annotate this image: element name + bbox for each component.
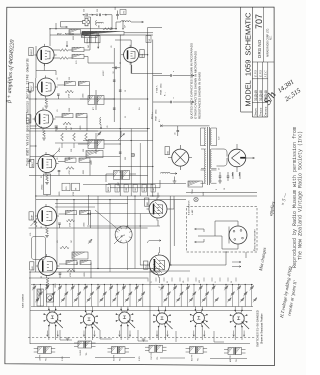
svg-text:05: 05 xyxy=(41,176,43,178)
terminal arrows below wafers xyxy=(46,331,48,337)
ground bottom2 xyxy=(142,338,146,340)
wire loop V7 xyxy=(32,237,46,260)
svg-text:470Ω: 470Ω xyxy=(58,147,61,152)
svg-text:.01: .01 xyxy=(57,241,59,244)
wire coil taps xyxy=(108,349,130,353)
wire coil taps xyxy=(145,347,167,351)
capacitor tone 250b xyxy=(116,14,119,16)
wire V6 6SA7 plate load xyxy=(59,213,66,215)
svg-text:YEL: YEL xyxy=(198,358,200,361)
resistor ladder V5 6SK7 xyxy=(65,158,76,162)
wire v x174 xyxy=(173,200,175,246)
svg-text:YEL: YEL xyxy=(120,358,122,361)
wire V6 6SA7 row xyxy=(29,227,148,229)
svg-text:.05: .05 xyxy=(107,126,109,129)
resistor ladder V3 6SQ7 xyxy=(64,82,75,86)
capacitor chain top xyxy=(83,14,84,15)
speaker LS1 xyxy=(83,18,90,25)
wire y271 xyxy=(150,270,190,272)
svg-text:8: 8 xyxy=(216,189,218,190)
wire bus risers xyxy=(50,20,123,46)
svg-text:YEL: YEL xyxy=(46,358,48,361)
arrow drop x67 xyxy=(66,41,68,47)
antenna arrow 2 xyxy=(153,101,170,103)
wire vertical bus x153 xyxy=(152,40,154,197)
capacitor V7 6J8G bypass xyxy=(59,272,62,274)
wire V3 6SQ7 row xyxy=(28,98,147,100)
resistor V5 cathode box xyxy=(44,174,51,195)
svg-text:K↓: K↓ xyxy=(158,119,161,122)
capacitor V4 6SK7 bypass xyxy=(55,125,58,127)
wire top chain xyxy=(83,15,113,22)
coil 855&#160;PRI xyxy=(112,347,118,354)
svg-text:F6 A→: F6 A→ xyxy=(151,112,154,120)
wire V7 6J8G plate load xyxy=(59,263,66,265)
wire V5 6SK7 row xyxy=(29,175,148,177)
wire ps bottom run xyxy=(150,180,160,196)
svg-text:6J8: 6J8 xyxy=(32,266,34,269)
wire S7 feeds xyxy=(88,195,140,270)
wire wafer risers xyxy=(49,307,56,341)
wire bottom loops xyxy=(60,330,224,342)
wire V4 6SK7 plate load xyxy=(55,116,62,118)
svg-text:KO2: KO2 xyxy=(117,188,119,191)
resistor 0005 box xyxy=(86,151,103,158)
ground bottom1 xyxy=(66,337,70,339)
capacitor V6 6SA7 bypass xyxy=(58,222,61,224)
svg-text:.0005: .0005 xyxy=(84,273,86,278)
filter choke LP xyxy=(121,21,131,22)
wire bottom run y357 xyxy=(35,358,247,359)
svg-text:455KC: 455KC xyxy=(103,70,105,76)
svg-text:.0005: .0005 xyxy=(80,126,82,131)
wire loop to rectifier xyxy=(217,149,228,166)
wire band indicator feed xyxy=(186,192,257,194)
coil box antenna xyxy=(37,289,44,306)
title block xyxy=(240,7,242,112)
svg-text:6B8: 6B8 xyxy=(147,202,149,205)
wire heater run xyxy=(132,65,162,74)
wire V2 plate xyxy=(115,40,148,74)
svg-text:56: 56 xyxy=(231,281,233,283)
wire rows mid2 xyxy=(55,204,160,226)
svg-text:250: 250 xyxy=(84,9,86,12)
wire speaker vertical xyxy=(90,17,92,36)
svg-text:OSC PRI: OSC PRI xyxy=(151,352,153,359)
wire remote internal xyxy=(204,221,238,249)
svg-text:HECKED: HECKED xyxy=(266,106,268,115)
wire lower bus y268 xyxy=(57,268,160,270)
svg-text:RESISTANCES SHOWN IN OHMS: RESISTANCES SHOWN IN OHMS xyxy=(197,72,201,119)
wire bus y35 xyxy=(50,34,153,36)
resistor V3 6SQ7 cathode xyxy=(45,99,48,105)
svg-text:05: 05 xyxy=(41,94,43,96)
resistor ladder V7 6J8G xyxy=(66,261,77,265)
svg-text:25: 25 xyxy=(125,116,127,118)
wire rectifier heater xyxy=(233,172,240,179)
wire remote drop xyxy=(170,252,246,265)
wire row y184 xyxy=(83,183,153,185)
wire lower bus y310 xyxy=(30,310,252,312)
lamp band indicator xyxy=(194,197,198,201)
switch wafer S4 xyxy=(156,313,167,324)
coil G-30W xyxy=(78,341,84,348)
tube V5 6SK7 xyxy=(38,155,56,173)
svg-text:1600Ω: 1600Ω xyxy=(41,184,44,190)
svg-text:K →: K → xyxy=(165,92,167,96)
capacitor V5 6SK7 bypass xyxy=(58,170,61,172)
wire row y140 xyxy=(83,140,153,142)
label box top right xyxy=(146,36,151,43)
svg-text:EMOTE SWITCH UNIT: EMOTE SWITCH UNIT xyxy=(255,228,257,248)
svg-text:.05: .05 xyxy=(175,133,177,136)
output transformer T2 xyxy=(85,36,100,43)
power transformer T1 xyxy=(207,127,209,185)
wire coil taps xyxy=(224,350,246,354)
svg-text:Shown in Broadcast Position: Shown in Broadcast Position xyxy=(260,313,263,344)
svg-text:500Ω: 500Ω xyxy=(160,83,163,88)
svg-text:Nº348: Nº348 xyxy=(160,90,163,95)
trimmer v6 out xyxy=(89,240,92,242)
svg-text:6000: 6000 xyxy=(73,36,75,40)
svg-text:MOD1: MOD1 xyxy=(108,187,110,192)
terminal boxes DPS TR xyxy=(62,183,70,191)
wire row y128 xyxy=(30,128,150,130)
svg-text:F HB A: F HB A xyxy=(156,85,159,94)
wire left drop xyxy=(30,269,150,345)
resistor v6 out xyxy=(60,246,69,249)
svg-text:.05: .05 xyxy=(57,78,59,81)
svg-text:6X5: 6X5 xyxy=(167,151,169,154)
svg-text:D RG N O: D RG N O xyxy=(257,39,262,58)
ground ps xyxy=(173,180,177,182)
coil ANT&#160;PRI xyxy=(228,348,234,355)
tab box top xyxy=(120,10,126,15)
wire v x170 xyxy=(169,196,171,265)
resistor V7 6J8G cathode xyxy=(46,278,49,284)
wire osc row xyxy=(106,167,160,188)
switch wafer S6 xyxy=(233,313,244,324)
svg-text:250: 250 xyxy=(97,9,99,12)
wire transformer taps xyxy=(201,128,217,183)
svg-text:J.T.C: J.T.C xyxy=(264,70,268,78)
svg-text:470: 470 xyxy=(199,280,201,283)
svg-text:.01: .01 xyxy=(57,110,59,113)
wire V4 6SK7 row xyxy=(26,130,148,132)
svg-text:6SA7: 6SA7 xyxy=(30,215,33,220)
svg-text:.0001: .0001 xyxy=(57,126,59,131)
svg-text:250: 250 xyxy=(69,77,71,80)
svg-text:500Ω: 500Ω xyxy=(155,109,158,114)
resistor screen 5000 xyxy=(82,33,98,38)
svg-text:a: a xyxy=(173,71,175,72)
wire bottom bus xyxy=(30,343,250,345)
wire bus y199 xyxy=(36,199,186,201)
IF transformer IFT2 xyxy=(88,140,95,149)
svg-text:MX4: MX4 xyxy=(144,188,146,191)
wire grid caps left xyxy=(30,93,36,160)
resistor V6 6SA7 cathode xyxy=(46,228,49,234)
svg-text:6-30V: 6-30V xyxy=(139,355,141,361)
resistor grid V1 network xyxy=(60,49,68,52)
tube V12 remote xyxy=(229,226,247,244)
svg-text:.1: .1 xyxy=(151,282,153,283)
svg-text:7S7: 7S7 xyxy=(146,265,148,268)
trimmer mid xyxy=(98,133,101,135)
svg-text:5000Ω: 5000Ω xyxy=(86,38,89,44)
switch wafer S5 xyxy=(193,312,204,323)
svg-text:.05: .05 xyxy=(57,158,59,161)
wire v x131 xyxy=(130,129,132,196)
wire V3 6SQ7 plate load xyxy=(57,84,64,86)
trimmer band bus bottom xyxy=(31,306,253,308)
svg-text:RAWN: RAWN xyxy=(254,108,257,114)
svg-text:10: 10 xyxy=(125,90,127,92)
wire row y156 xyxy=(30,156,120,158)
svg-text:.1: .1 xyxy=(215,282,217,283)
resistor ladder V4 6SK7 xyxy=(62,114,73,118)
wire risers to clusters xyxy=(57,196,135,272)
arrow drop x98 xyxy=(97,33,99,43)
switch toggle S7a xyxy=(118,131,124,140)
wire top right feed xyxy=(148,27,162,29)
coil L1 xyxy=(100,118,101,125)
filter choke input xyxy=(161,172,171,173)
oscillator coil group xyxy=(114,171,121,180)
svg-text:.0001: .0001 xyxy=(55,284,57,289)
wire V10 connections xyxy=(158,193,174,226)
wire left rail xyxy=(35,78,37,272)
svg-text:E.V.S: E.V.S xyxy=(254,70,258,78)
wire V1 cathode xyxy=(36,46,56,78)
antenna arrow 1 xyxy=(153,75,170,77)
svg-text:.0005: .0005 xyxy=(59,192,61,197)
arrow V5 grid xyxy=(53,150,60,157)
wire v x140 xyxy=(139,143,141,196)
wire V5 6SK7 plate load xyxy=(58,161,65,163)
svg-text:6V6: 6V6 xyxy=(142,54,144,57)
tube V11 6J8 xyxy=(150,255,170,275)
resistor dropper long xyxy=(82,31,124,35)
wire vertical bus x114 xyxy=(113,48,115,122)
svg-text:16: 16 xyxy=(224,188,226,190)
wire long bus y196 xyxy=(36,195,257,197)
wire coil taps xyxy=(186,349,208,353)
tube V2 6V6GT xyxy=(124,47,139,62)
svg-text:31|2|49: 31|2|49 xyxy=(254,90,258,101)
arrows aux xyxy=(232,261,241,263)
wire vertical bus x120 xyxy=(119,35,121,196)
capacitor column x120 xyxy=(119,89,122,91)
wire row y183 xyxy=(108,183,186,185)
label row y280 xyxy=(147,278,149,282)
IF transformer IFT1 xyxy=(88,96,95,105)
wire V11 connections xyxy=(140,247,160,283)
svg-text:.0005: .0005 xyxy=(84,223,86,228)
wire IFT connections xyxy=(78,90,120,154)
coil OSC&#160;PRI xyxy=(149,345,155,352)
capacitor V3 6SQ7 bypass xyxy=(57,93,60,95)
svg-text:RD8: RD8 xyxy=(126,188,128,191)
wire bus y28.8 xyxy=(50,28,117,30)
svg-text:01: 01 xyxy=(41,226,43,228)
trimmer band xyxy=(33,287,36,289)
wire V1 couplings xyxy=(52,36,114,63)
svg-text:25: 25 xyxy=(167,281,169,283)
capacitor ps input xyxy=(177,130,180,132)
resistor screen 6000 xyxy=(69,30,81,35)
svg-text:DB2: DB2 xyxy=(135,188,137,191)
connector pins remote xyxy=(198,229,204,242)
coil B55&#160;PRI xyxy=(190,347,196,354)
resistor ladder V6 6SA7 xyxy=(66,211,77,215)
svg-text:N.Z.: N.Z. xyxy=(271,35,273,40)
svg-text:01: 01 xyxy=(41,126,43,128)
svg-text:The New Zealand Vintage Radio: The New Zealand Vintage Radio Society (I… xyxy=(297,131,303,260)
remote switch unit dashed box xyxy=(187,207,258,253)
tube V1 6V6GT xyxy=(37,46,54,63)
wire vertical bus x147 xyxy=(147,28,149,197)
switch wafer S3 xyxy=(119,312,130,323)
svg-text:G-30W: G-30W xyxy=(80,350,82,356)
choke coil 600 xyxy=(96,21,97,26)
wire V7 6J8G row xyxy=(29,277,148,279)
tube V6 6SA7 xyxy=(38,207,57,226)
svg-text:250: 250 xyxy=(115,7,117,10)
junction dots xyxy=(49,28,50,29)
tube V4 6SK7 xyxy=(35,110,53,128)
switch wafer S2 xyxy=(83,314,94,325)
wire coil taps xyxy=(74,343,96,347)
svg-text:6SK7: 6SK7 xyxy=(32,162,34,167)
resistor V4 6SK7 cathode xyxy=(43,131,46,137)
svg-text:300: 300 xyxy=(125,157,127,160)
capacitor ps filters xyxy=(219,175,222,177)
trimmer band bus top xyxy=(31,284,253,286)
wire lower bus y272 xyxy=(30,271,160,273)
svg-text:58: 58 xyxy=(87,286,89,288)
wire speaker input hook xyxy=(61,22,83,28)
dashed gang line xyxy=(28,337,256,339)
svg-text:50: 50 xyxy=(113,72,115,74)
tube V9 5Y3 rectifier xyxy=(228,149,246,167)
svg-text:05: 05 xyxy=(41,276,43,278)
tube V10 6B8 xyxy=(149,200,167,218)
svg-text:YEL: YEL xyxy=(157,356,159,359)
svg-text:SWITCHES S1–S6 GANGED: SWITCHES S1–S6 GANGED xyxy=(256,310,260,347)
svg-text:5Y3: 5Y3 xyxy=(124,11,126,14)
svg-text:AKRAD RADIO CORP. LTD.: AKRAD RADIO CORP. LTD. xyxy=(266,28,269,57)
resistor bleeder xyxy=(188,181,203,187)
svg-text:TONE: TONE xyxy=(192,188,194,194)
svg-text:0-30V: 0-30V xyxy=(62,355,64,361)
svg-text:WAVE CHANGE: WAVE CHANGE xyxy=(22,293,25,308)
tube V8 6X5GT xyxy=(172,149,189,166)
arrow hook xyxy=(150,240,161,242)
capacitor 50 xyxy=(115,67,117,70)
resistor V5 6SK7 cathode xyxy=(46,175,49,181)
svg-text:YEL: YEL xyxy=(86,352,88,355)
wire ps top xyxy=(160,125,210,127)
wire mid rows xyxy=(55,131,98,148)
svg-text:.05: .05 xyxy=(111,46,113,49)
svg-text:.05: .05 xyxy=(183,281,185,283)
wire coil taps xyxy=(34,349,56,353)
switch rotary small S7 xyxy=(115,226,132,243)
wire rectifier output xyxy=(246,157,255,159)
jack socket xyxy=(47,294,54,302)
svg-text:.0005: .0005 xyxy=(91,161,93,166)
svg-text:0.01: 0.01 xyxy=(76,61,78,65)
svg-text:6V6GT: 6V6GT xyxy=(31,48,33,55)
svg-text:600: 600 xyxy=(99,25,101,28)
svg-text:.0005: .0005 xyxy=(83,170,85,175)
volume control VR1 xyxy=(35,218,38,227)
svg-text:a: a xyxy=(173,98,175,99)
tube V3 6SQ7 xyxy=(37,78,55,96)
svg-text:MODEL 1059 SCHEMATIC: MODEL 1059 SCHEMATIC xyxy=(244,12,253,107)
terminal strip labels xyxy=(106,185,110,193)
capacitor column x114 xyxy=(113,79,116,81)
svg-text:Nº347: Nº347 xyxy=(155,116,158,121)
svg-text:707: 707 xyxy=(254,14,264,29)
svg-text:.0005: .0005 xyxy=(82,94,84,99)
svg-text:YEL: YEL xyxy=(236,359,238,362)
switch wafer S1 xyxy=(47,312,58,323)
resistor zigzag y28.8 xyxy=(103,28,111,30)
coil L2S&#160;PRI xyxy=(38,347,44,354)
terminal dot B xyxy=(131,153,135,157)
svg-text:VOL: VOL xyxy=(30,232,32,236)
resistor stack mid xyxy=(61,133,64,141)
svg-text:6SQ7: 6SQ7 xyxy=(31,86,33,91)
tube V7 6J8G xyxy=(38,257,57,276)
svg-text:RACED: RACED xyxy=(260,107,263,114)
svg-text:E.V.S: E.V.S xyxy=(259,70,263,78)
svg-text:B55 PRI: B55 PRI xyxy=(192,354,194,361)
